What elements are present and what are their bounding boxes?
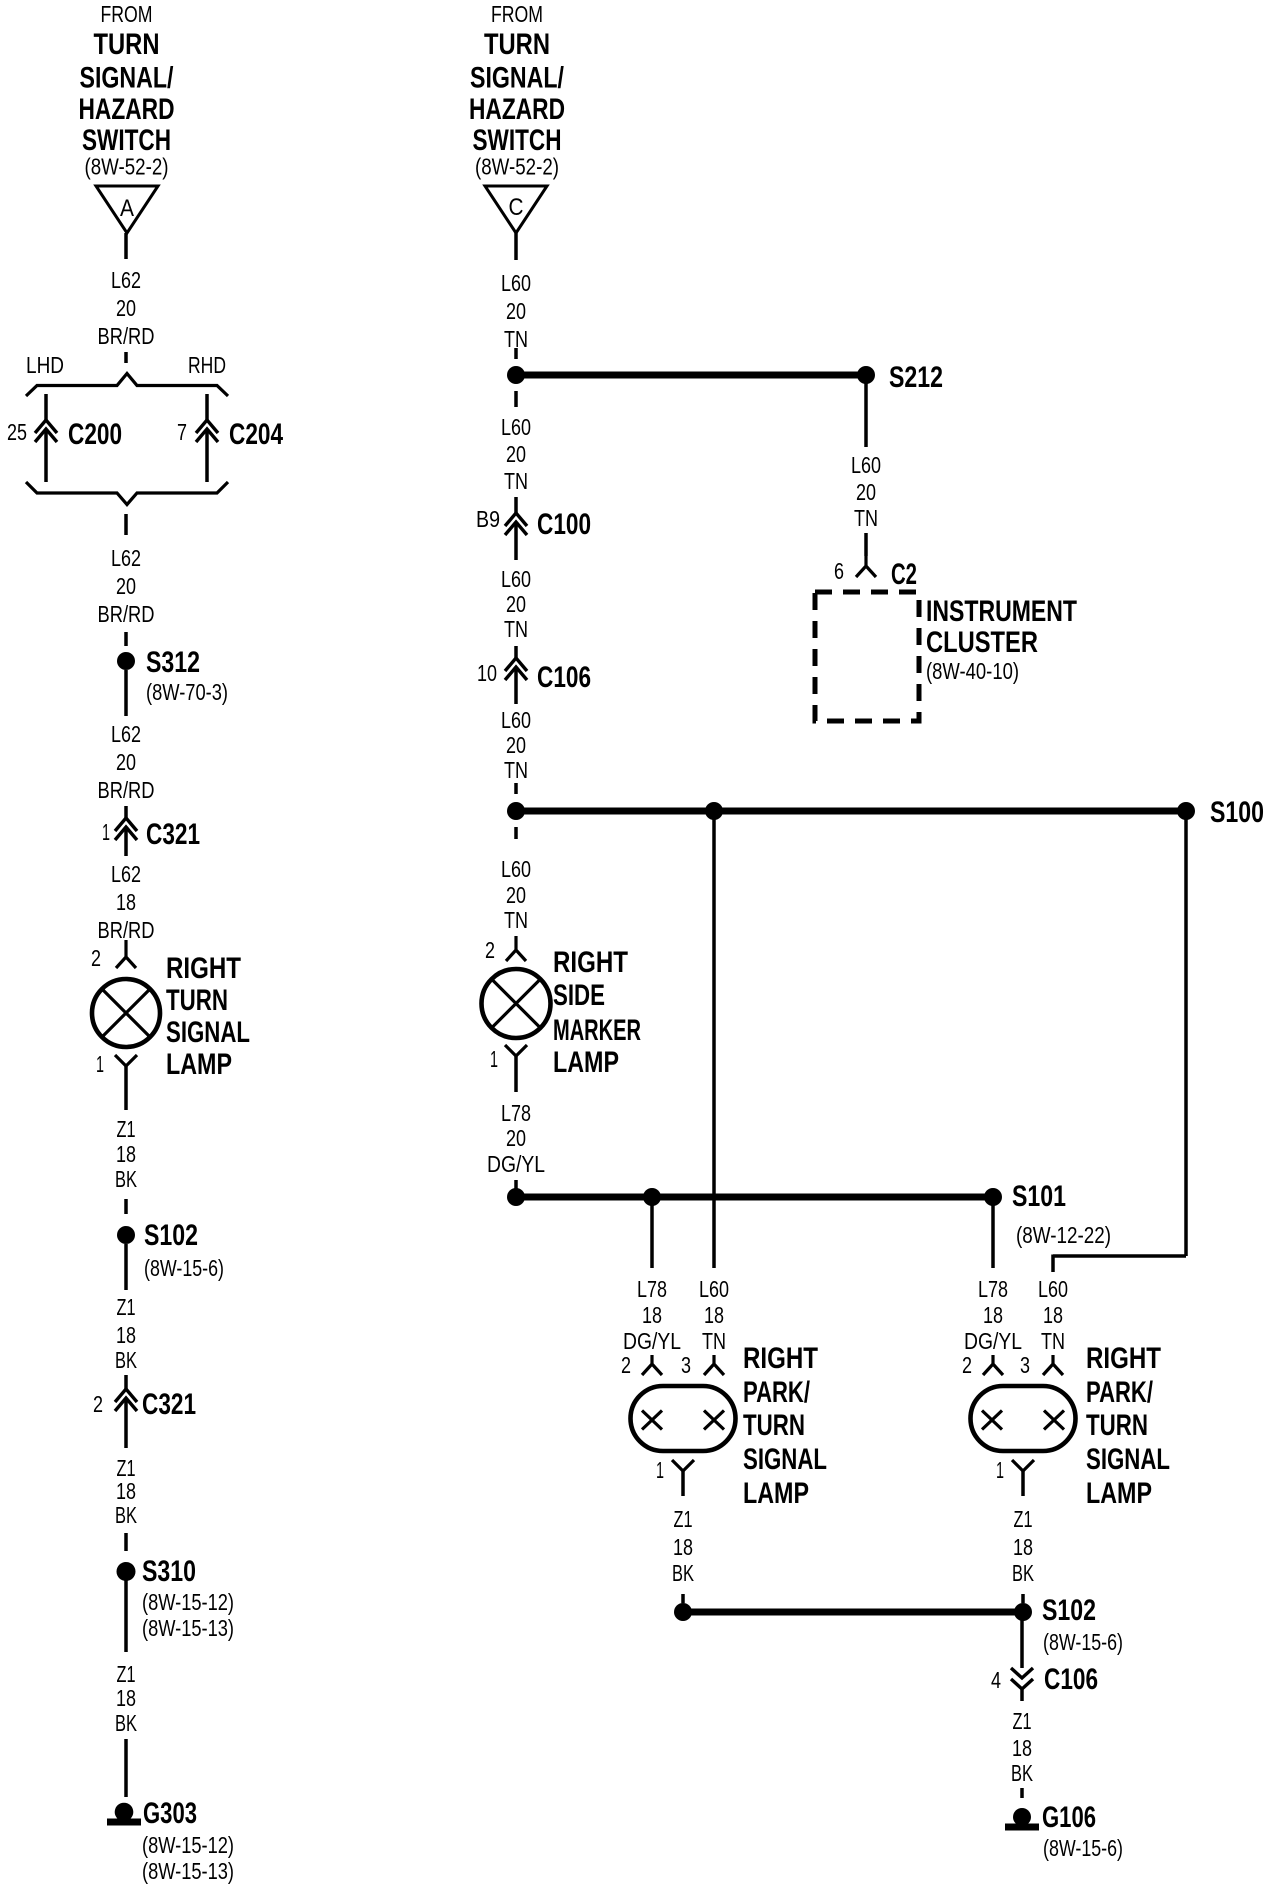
- svg-text:L62: L62: [111, 721, 141, 747]
- svg-text:DG/YL: DG/YL: [964, 1328, 1022, 1354]
- svg-text:L62: L62: [111, 861, 141, 887]
- svg-text:S102: S102: [1042, 1594, 1096, 1627]
- svg-text:(8W-15-6): (8W-15-6): [144, 1255, 224, 1281]
- svg-text:18: 18: [116, 1141, 136, 1167]
- svg-text:L78: L78: [501, 1100, 531, 1126]
- svg-text:S102: S102: [144, 1219, 198, 1252]
- svg-text:SWITCH: SWITCH: [473, 124, 562, 157]
- svg-text:18: 18: [704, 1302, 724, 1328]
- svg-text:20: 20: [116, 295, 136, 321]
- svg-text:18: 18: [642, 1302, 662, 1328]
- svg-text:C106: C106: [537, 661, 591, 694]
- svg-text:20: 20: [116, 749, 136, 775]
- svg-text:1: 1: [490, 1046, 498, 1072]
- svg-text:SIGNAL: SIGNAL: [166, 1016, 250, 1049]
- svg-text:LHD: LHD: [26, 352, 64, 378]
- svg-text:PARK/: PARK/: [1086, 1376, 1153, 1409]
- svg-text:1: 1: [96, 1051, 104, 1077]
- svg-text:Z1: Z1: [117, 1661, 136, 1687]
- svg-text:2: 2: [93, 1391, 103, 1417]
- svg-text:(8W-70-3): (8W-70-3): [146, 679, 228, 705]
- svg-text:18: 18: [116, 1322, 136, 1348]
- svg-text:L60: L60: [501, 566, 531, 592]
- svg-text:18: 18: [1043, 1302, 1063, 1328]
- svg-text:TN: TN: [504, 757, 528, 783]
- svg-text:FROM: FROM: [101, 1, 153, 27]
- svg-text:20: 20: [506, 1125, 526, 1151]
- svg-text:18: 18: [1012, 1735, 1032, 1761]
- svg-text:C2: C2: [891, 558, 917, 591]
- svg-text:20: 20: [506, 441, 526, 467]
- svg-text:L60: L60: [501, 414, 531, 440]
- svg-text:(8W-52-2): (8W-52-2): [475, 154, 559, 180]
- svg-text:TURN: TURN: [94, 28, 160, 61]
- svg-text:BK: BK: [115, 1502, 137, 1528]
- svg-text:TURN: TURN: [484, 28, 550, 61]
- svg-text:L78: L78: [637, 1276, 667, 1302]
- svg-text:L62: L62: [111, 267, 141, 293]
- svg-text:TN: TN: [504, 468, 528, 494]
- svg-text:C200: C200: [68, 418, 122, 451]
- svg-text:C321: C321: [142, 1388, 196, 1421]
- svg-text:BK: BK: [115, 1347, 137, 1373]
- svg-text:TURN: TURN: [743, 1409, 805, 1442]
- svg-text:18: 18: [116, 1685, 136, 1711]
- svg-text:C321: C321: [146, 818, 200, 851]
- svg-text:18: 18: [116, 889, 136, 915]
- svg-text:(8W-15-6): (8W-15-6): [1043, 1629, 1123, 1655]
- svg-text:RIGHT: RIGHT: [1086, 1342, 1161, 1375]
- svg-text:20: 20: [506, 591, 526, 617]
- svg-text:1: 1: [656, 1457, 664, 1483]
- svg-text:Z1: Z1: [1014, 1506, 1033, 1532]
- svg-text:DG/YL: DG/YL: [623, 1328, 681, 1354]
- svg-text:BK: BK: [1011, 1760, 1033, 1786]
- svg-text:3: 3: [1020, 1352, 1030, 1378]
- svg-text:S312: S312: [146, 646, 200, 679]
- svg-text:(8W-52-2): (8W-52-2): [85, 154, 169, 180]
- svg-text:(8W-12-22): (8W-12-22): [1016, 1222, 1111, 1248]
- svg-text:BK: BK: [672, 1560, 694, 1586]
- svg-text:FROM: FROM: [491, 1, 543, 27]
- svg-text:L60: L60: [851, 452, 881, 478]
- svg-text:S100: S100: [1210, 796, 1264, 829]
- svg-text:18: 18: [116, 1478, 136, 1504]
- svg-text:TN: TN: [504, 907, 528, 933]
- svg-text:CLUSTER: CLUSTER: [926, 626, 1038, 659]
- svg-text:S212: S212: [889, 361, 943, 394]
- svg-text:Z1: Z1: [117, 1294, 136, 1320]
- svg-text:7: 7: [177, 419, 187, 445]
- svg-text:2: 2: [962, 1352, 972, 1378]
- svg-text:SIDE: SIDE: [553, 979, 605, 1012]
- svg-text:C: C: [509, 194, 524, 221]
- svg-text:RIGHT: RIGHT: [166, 952, 241, 985]
- svg-text:1: 1: [996, 1457, 1004, 1483]
- svg-text:3: 3: [681, 1352, 691, 1378]
- svg-text:L60: L60: [501, 270, 531, 296]
- svg-text:C204: C204: [229, 418, 283, 451]
- svg-text:A: A: [120, 195, 134, 222]
- svg-text:HAZARD: HAZARD: [79, 93, 175, 126]
- svg-text:2: 2: [485, 937, 495, 963]
- svg-text:LAMP: LAMP: [1086, 1477, 1152, 1510]
- svg-text:BK: BK: [115, 1166, 137, 1192]
- svg-text:6: 6: [834, 558, 844, 584]
- svg-text:18: 18: [1013, 1534, 1033, 1560]
- svg-text:20: 20: [856, 479, 876, 505]
- svg-text:10: 10: [477, 660, 497, 686]
- svg-text:(8W-15-13): (8W-15-13): [142, 1858, 234, 1884]
- svg-text:DG/YL: DG/YL: [487, 1151, 545, 1177]
- svg-text:G303: G303: [143, 1797, 197, 1830]
- svg-text:C100: C100: [537, 508, 591, 541]
- svg-text:2: 2: [91, 945, 101, 971]
- svg-text:Z1: Z1: [674, 1506, 693, 1532]
- svg-text:C106: C106: [1044, 1663, 1098, 1696]
- svg-text:(8W-15-12): (8W-15-12): [142, 1832, 234, 1858]
- svg-text:Z1: Z1: [1013, 1708, 1032, 1734]
- svg-text:TN: TN: [1041, 1328, 1065, 1354]
- svg-text:LAMP: LAMP: [553, 1046, 619, 1079]
- svg-text:L60: L60: [1038, 1276, 1068, 1302]
- svg-text:L60: L60: [501, 856, 531, 882]
- svg-text:(8W-15-6): (8W-15-6): [1043, 1835, 1123, 1861]
- svg-text:Z1: Z1: [117, 1116, 136, 1142]
- svg-text:(8W-15-13): (8W-15-13): [142, 1615, 234, 1641]
- svg-text:S310: S310: [142, 1555, 196, 1588]
- svg-text:BR/RD: BR/RD: [98, 777, 155, 803]
- svg-text:SIGNAL: SIGNAL: [1086, 1443, 1170, 1476]
- svg-text:TN: TN: [504, 616, 528, 642]
- svg-text:SIGNAL/: SIGNAL/: [80, 62, 175, 95]
- svg-text:PARK/: PARK/: [743, 1376, 810, 1409]
- svg-text:BK: BK: [115, 1710, 137, 1736]
- svg-text:LAMP: LAMP: [166, 1048, 232, 1081]
- svg-text:HAZARD: HAZARD: [469, 93, 565, 126]
- svg-text:1: 1: [102, 819, 110, 845]
- svg-text:20: 20: [506, 732, 526, 758]
- svg-text:SWITCH: SWITCH: [82, 124, 171, 157]
- svg-text:RHD: RHD: [188, 352, 226, 378]
- svg-text:TN: TN: [854, 505, 878, 531]
- svg-text:25: 25: [7, 419, 27, 445]
- svg-text:18: 18: [673, 1534, 693, 1560]
- svg-text:L60: L60: [699, 1276, 729, 1302]
- svg-text:B9: B9: [476, 506, 500, 532]
- svg-text:(8W-15-12): (8W-15-12): [142, 1589, 234, 1615]
- svg-text:BR/RD: BR/RD: [98, 601, 155, 627]
- svg-text:G106: G106: [1042, 1801, 1096, 1834]
- svg-text:S101: S101: [1012, 1180, 1066, 1213]
- svg-text:18: 18: [983, 1302, 1003, 1328]
- svg-text:L60: L60: [501, 707, 531, 733]
- svg-text:BK: BK: [1012, 1560, 1034, 1586]
- svg-text:SIGNAL/: SIGNAL/: [470, 62, 565, 95]
- svg-text:LAMP: LAMP: [743, 1477, 809, 1510]
- svg-text:L62: L62: [111, 545, 141, 571]
- svg-text:RIGHT: RIGHT: [743, 1342, 818, 1375]
- svg-text:4: 4: [991, 1667, 1001, 1693]
- svg-text:RIGHT: RIGHT: [553, 946, 628, 979]
- svg-text:BR/RD: BR/RD: [98, 323, 155, 349]
- svg-text:TURN: TURN: [1086, 1409, 1148, 1442]
- svg-text:TURN: TURN: [166, 984, 228, 1017]
- svg-text:(8W-40-10): (8W-40-10): [926, 658, 1019, 684]
- svg-text:SIGNAL: SIGNAL: [743, 1443, 827, 1476]
- svg-text:MARKER: MARKER: [553, 1014, 641, 1047]
- svg-text:BR/RD: BR/RD: [98, 917, 155, 943]
- svg-text:2: 2: [621, 1352, 631, 1378]
- svg-text:INSTRUMENT: INSTRUMENT: [926, 595, 1077, 628]
- svg-text:20: 20: [116, 573, 136, 599]
- svg-text:20: 20: [506, 298, 526, 324]
- svg-text:L78: L78: [978, 1276, 1008, 1302]
- svg-text:20: 20: [506, 882, 526, 908]
- svg-text:TN: TN: [702, 1328, 726, 1354]
